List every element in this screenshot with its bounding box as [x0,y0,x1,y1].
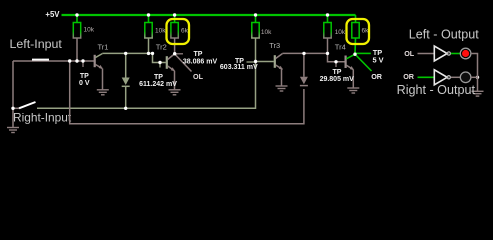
transistor Tr4 [335,42,355,70]
ground G1 (Tr1 emitter) [97,90,109,95]
svg-text:611.242 mV: 611.242 mV [139,81,177,88]
resistor R2 10k [145,16,166,53]
transistor Tr3 [269,41,283,70]
svg-text:0 V: 0 V [79,80,90,87]
power rail +5V [62,14,356,16]
diode D1 [122,53,130,108]
svg-text:TP: TP [194,51,203,58]
svg-text:603.311 mV: 603.311 mV [220,64,258,71]
wire: Tr2 emitter down [174,71,176,90]
wire: bus2 Tr1 base to D2 (0V) [70,61,304,124]
wire: right input left segment [13,107,19,109]
test point TP1 0V [79,61,90,87]
svg-text:5 V: 5 V [372,55,383,64]
wire: OR to gate U2 (green) [418,76,435,78]
resistor R6 6k (highlighted) [352,15,369,54]
wire: OL to gate U1 [418,53,435,55]
switch SW1 (Left-Input, closed) [32,59,49,61]
ground G3 (Tr3 emitter) [276,86,288,91]
svg-text:Left-Input: Left-Input [10,37,63,51]
test point TP5 29.805 mV [320,63,355,83]
svg-text:OR: OR [371,72,383,81]
svg-text:OL: OL [404,49,415,58]
svg-text:Tr4: Tr4 [335,42,346,51]
transistor Tr1 [95,43,109,69]
wire: U2 output (low) [451,76,460,78]
ground G5 (input common) [7,108,19,132]
transistor Tr2 [156,43,175,72]
svg-text:10k: 10k [261,29,272,36]
test point TP4 603.311 mV [220,58,258,71]
wire: L1 to right rail [471,54,478,78]
wire: Tr3 collector bus to Tr4 base (29.8mV) [282,53,344,61]
LED indicator L2 (off) [460,72,471,83]
ground G4 (Tr4 emitter) [347,88,359,93]
svg-text:10k: 10k [335,29,346,36]
wire: Tr1 collector bus to Tr2 base (611mV) [102,53,166,62]
svg-text:29.805 mV: 29.805 mV [320,76,355,83]
test point TP3 38.086 mV tick [175,53,183,55]
svg-text:+5V: +5V [45,10,60,19]
svg-text:Left - Output: Left - Output [409,28,480,42]
ground G6 (output common) [472,77,484,96]
svg-text:Right - Output: Right - Output [397,83,476,97]
svg-text:Tr1: Tr1 [98,43,109,52]
svg-text:Tr2: Tr2 [156,43,167,52]
svg-text:OR: OR [403,72,415,81]
NOT gate U1 [434,46,450,61]
diode D2 [300,53,308,85]
resistor R3 6k (highlighted) [171,16,189,54]
svg-text:6k: 6k [181,28,189,35]
wire: Tr3 emitter down [281,69,283,86]
wire: left input net to Tr1 base [13,60,94,62]
resistor R1 10k [73,16,94,61]
ground G2 (Tr2 emitter) [169,90,181,95]
wire: U1 output (high, green) [451,53,460,55]
wire: Tr2 collector node diagonal to OL tag [175,54,192,72]
svg-text:TP: TP [80,73,89,80]
wire: left vertical down from switch [12,61,14,108]
switch SW2 (Right-Input, open) [19,102,36,108]
svg-text:38.086 mV: 38.086 mV [183,58,218,65]
NOT gate U2 [434,70,450,85]
highlight box around R6 [347,19,370,44]
wire: Tr4 emitter down [352,70,354,88]
resistor R5 10k [324,16,346,53]
svg-text:10k: 10k [155,28,166,35]
highlight box around R3 [167,19,190,44]
svg-text:OL: OL [193,72,204,81]
svg-text:Right-Input: Right-Input [13,110,72,124]
test point TP6 5V tick (green) [356,52,371,54]
wire: Tr1 emitter down [102,69,104,90]
wire: L2 to right rail [471,76,478,78]
wire: Right-Input bus (603mV) to Tr3 base [37,62,274,109]
LED indicator L1 (on, red) [460,48,471,59]
wire: Tr4 collector node green diagonal to OR tag [355,54,372,71]
svg-text:10k: 10k [84,27,95,34]
test point TP2 611.242 mV [139,63,177,88]
resistor R4 10k [252,16,272,62]
svg-text:Tr3: Tr3 [269,41,280,50]
